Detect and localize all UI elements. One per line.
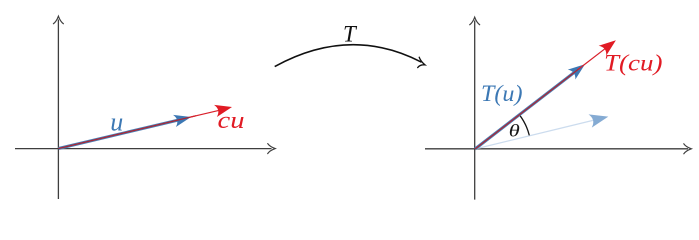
svg-text:u: u bbox=[110, 108, 123, 137]
svg-text:T: T bbox=[343, 22, 358, 47]
svg-text:cu: cu bbox=[218, 108, 245, 134]
svg-text:T(u): T(u) bbox=[481, 81, 523, 107]
svg-text:T(cu): T(cu) bbox=[604, 51, 663, 76]
